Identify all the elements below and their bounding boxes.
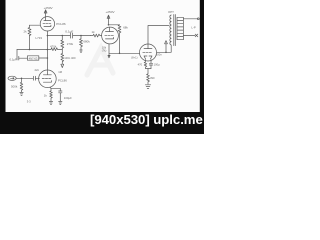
capacitor C2 [71, 33, 73, 38]
B+ arrow right [165, 41, 168, 53]
bottom black band [0, 112, 204, 134]
cathode cap V4 [59, 91, 62, 101]
wire plate node to R6 [109, 24, 120, 26]
input wire [16, 77, 33, 79]
wire V1 cathode down [46, 31, 48, 36]
wire R1 to V1 grid [30, 24, 41, 26]
cathode join and R7 [146, 69, 152, 85]
cathode R V3 [144, 60, 147, 69]
node junction main wire [46, 36, 48, 71]
left black bar [0, 0, 6, 134]
svg-text:100µF: 100µF [64, 96, 72, 100]
box cap 4N7 [27, 56, 38, 60]
wire R1 bottom down [29, 36, 31, 50]
svg-text:(8+1): (8+1) [131, 55, 137, 59]
resistor R9 horizontal [47, 48, 62, 51]
svg-text:68k: 68k [123, 26, 128, 30]
svg-text:680k: 680k [83, 40, 90, 44]
svg-text:PCL86: PCL86 [58, 79, 67, 83]
wire V2 cathode down and right [108, 44, 140, 58]
svg-text:0,1µF: 0,1µF [65, 29, 73, 33]
resistor R5 horizontal [91, 34, 102, 37]
cathode R V4 [50, 91, 53, 101]
svg-text:PCL86: PCL86 [56, 22, 66, 26]
cathode C V3 [149, 60, 152, 69]
ground V3 [145, 85, 150, 89]
svg-text:270k: 270k [67, 42, 74, 46]
svg-text:3-3: 3-3 [27, 99, 31, 103]
capacitor C3 column [61, 54, 64, 68]
svg-text:100n: 100n [156, 52, 162, 56]
wire main horizontal y35.5 [47, 35, 90, 37]
tube V4 envelope [39, 70, 57, 88]
ground V4 C [59, 102, 62, 105]
tube V2 envelope [102, 27, 119, 44]
tube V4 internals [42, 70, 51, 82]
ground arrow col81 [80, 50, 83, 52]
grid resistor R8 [20, 78, 23, 92]
component labels [10, 6, 196, 103]
tube V3 envelope [140, 44, 157, 61]
supply arrow +250V stage1 [44, 10, 47, 17]
right black bar [200, 0, 204, 134]
ground V4 R [49, 102, 52, 105]
output wires [183, 19, 197, 37]
box to column [39, 57, 48, 59]
output terminal top [197, 18, 199, 20]
resistor R4 [80, 36, 83, 51]
resistor R3 [61, 36, 64, 54]
resistor R6 [118, 25, 121, 54]
coupling cap C1 [34, 76, 36, 80]
svg-text:100n 400: 100n 400 [64, 56, 76, 60]
svg-text:L-P: L-P [191, 25, 195, 29]
wire OPT bottom to plate rail [157, 45, 171, 52]
OPT primary coil [170, 15, 171, 45]
wire A feedback [17, 49, 47, 51]
ghost watermark [87, 48, 113, 75]
wire V3 plate up to OPT [148, 26, 169, 45]
tube V3 internals [143, 44, 152, 59]
svg-text:0,1µF: 0,1µF [10, 57, 17, 61]
svg-text:4N7-63: 4N7-63 [29, 56, 38, 60]
supply arrow +250V stage3 [107, 15, 110, 25]
OPT secondary coil [177, 17, 183, 39]
input jack [8, 76, 16, 80]
wire C1 to grid [35, 77, 39, 79]
svg-text:OPT: OPT [168, 10, 174, 14]
resistor R1 [28, 25, 31, 35]
svg-text:(7k): (7k) [102, 49, 107, 53]
OPT core [174, 15, 176, 46]
svg-text:22n: 22n [35, 68, 40, 72]
svg-text:+250V: +250V [44, 6, 54, 10]
svg-text:500k: 500k [11, 84, 18, 88]
ground input [20, 92, 23, 95]
tube V1 internals [43, 17, 51, 27]
tube V1 envelope [40, 17, 54, 31]
feedback cap left [17, 50, 19, 61]
svg-text:100µ: 100µ [154, 62, 160, 66]
svg-text:L733: L733 [36, 36, 43, 40]
svg-text:390: 390 [150, 76, 155, 80]
svg-text:[940x530] uplc.me: [940x530] uplc.me [90, 112, 203, 127]
svg-text:+250V: +250V [106, 10, 116, 14]
tube V2 internals [105, 27, 114, 39]
cathode bus V4 [50, 87, 61, 91]
svg-text:1k: 1k [44, 93, 48, 97]
svg-text:470k: 470k [50, 45, 57, 49]
svg-text:470: 470 [138, 62, 143, 66]
feedback line to box [19, 57, 28, 59]
junction dots [21, 24, 167, 79]
